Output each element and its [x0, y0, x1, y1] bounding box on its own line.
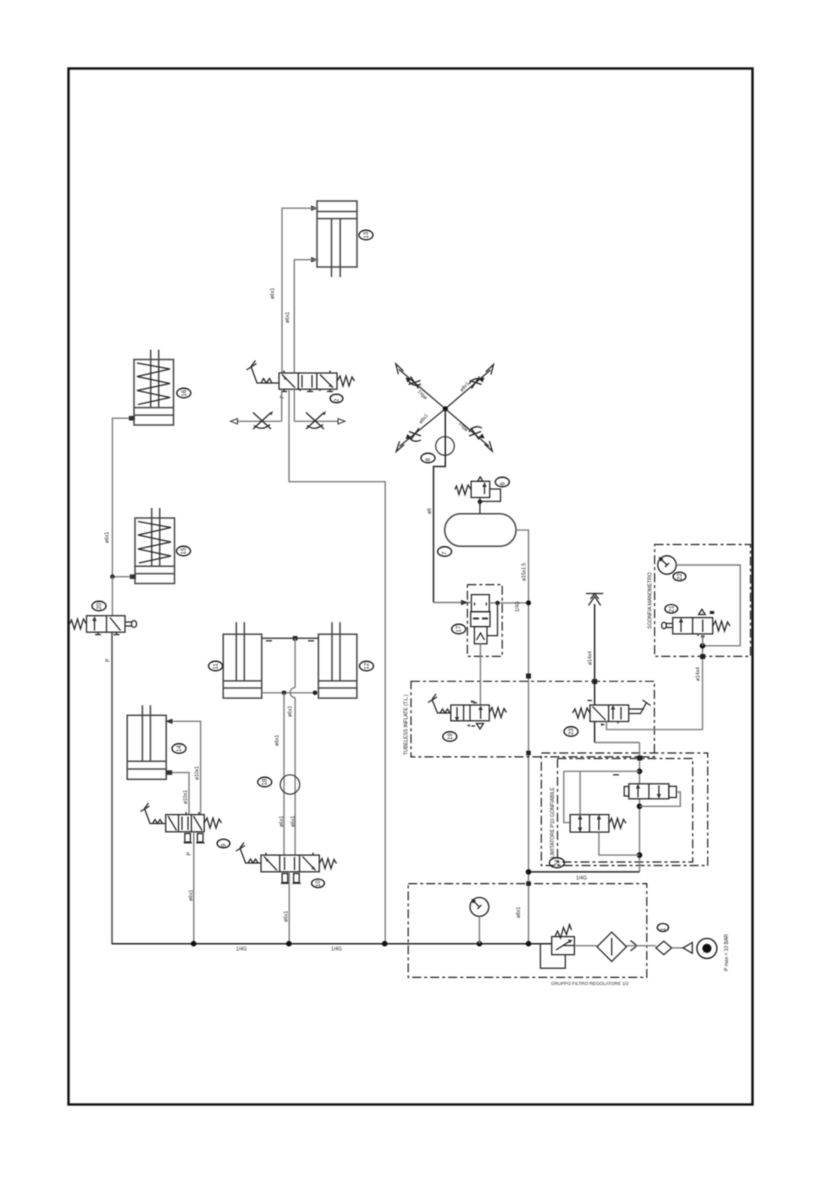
label manifold — [421, 453, 435, 463]
wire bottom manifold between C11 and C12 — [262, 691, 319, 696]
label cylinder C12 — [360, 661, 374, 671]
cylinder D (middle-left, double acting) — [127, 705, 166, 779]
pressure gauge FRL — [470, 898, 489, 944]
spring of valve V-D — [204, 818, 221, 828]
svg-text:ø10x1: ø10x1 — [195, 766, 201, 780]
wire centre riser with crossover hop — [290, 638, 295, 775]
wire left line of pair down — [283, 693, 285, 776]
port arrow top of cylinder B — [311, 206, 319, 211]
svg-text:12: 12 — [365, 662, 371, 669]
label valve V-D — [217, 839, 230, 848]
label tank — [438, 547, 452, 557]
air receiver tank — [445, 514, 516, 547]
tick crossing sgonfia box bottom — [700, 654, 705, 659]
svg-text:21: 21 — [669, 605, 675, 612]
wire cylinder D bottom port to valve — [172, 773, 189, 815]
junction dot supply riser — [526, 869, 532, 875]
svg-text:ø8: ø8 — [427, 508, 433, 514]
svg-text:10: 10 — [316, 880, 322, 887]
valve VA 2/2 pilot — [624, 784, 676, 799]
wire regulator outlet to main riser — [489, 602, 528, 604]
wire cylinder F port to left riser — [112, 418, 128, 578]
port arrow bottom of cylinder B — [311, 257, 319, 262]
wire manifold line into regulator — [434, 602, 472, 604]
filter FRL — [597, 932, 626, 961]
cylinder E (left second, spring return) — [130, 508, 175, 584]
svg-text:SGONFIA MANOMETRO: SGONFIA MANOMETRO — [648, 572, 654, 629]
air supply source — [697, 938, 717, 958]
wire valve V10 pressure to bus — [288, 872, 290, 944]
valve V21 3/2 button-spring — [673, 618, 713, 641]
label limiter id — [549, 858, 564, 868]
spring of valve V20 — [70, 619, 87, 629]
cylinder C12 (double acting) — [318, 622, 357, 698]
arrow into regulator — [461, 600, 469, 605]
exhaust mufflers of valve V-D — [184, 834, 205, 843]
pressure regulator FRL — [540, 925, 574, 969]
lever pedal of valve V2 — [247, 361, 280, 384]
lever of valve V23 — [629, 700, 651, 714]
cylinder C11 (double acting) — [223, 622, 262, 698]
valve V-D 5/2 lever-spring — [166, 812, 205, 832]
wire top manifold between C11 and C12 — [262, 636, 319, 641]
svg-text:14: 14 — [177, 745, 183, 752]
exhaust mufflers of valve V10 — [281, 874, 301, 884]
tick crossing at V23 line — [592, 679, 597, 684]
wire limiter main riser — [637, 743, 643, 872]
label cylinder D — [172, 744, 186, 754]
lever pedal of valve V10 — [236, 843, 261, 864]
supply bus line — [112, 941, 552, 947]
svg-text:1/4G: 1/4G — [236, 947, 247, 953]
label gauge sgonfia — [673, 572, 686, 581]
wire valve V21 bottom to junction — [702, 634, 704, 646]
label valve V23 — [564, 727, 578, 737]
wire cylinder B bottom port to valve — [294, 260, 317, 373]
label cylinder E — [177, 546, 191, 556]
wire cylinder E port to left riser — [112, 576, 129, 578]
label safety valve — [495, 477, 509, 487]
label cylinder B — [359, 230, 373, 240]
svg-text:1/4G: 1/4G — [515, 601, 521, 612]
blow gun arrow symbol — [586, 594, 603, 706]
label cylinder F — [177, 388, 191, 398]
label valve V20 — [92, 601, 106, 611]
label valve V10 — [312, 879, 325, 888]
svg-text:19: 19 — [448, 733, 454, 740]
svg-text:23: 23 — [569, 728, 575, 735]
label coupling — [657, 924, 668, 932]
tick crossing TL box — [526, 674, 531, 679]
pressure regulator dashed box — [467, 585, 502, 657]
svg-text:ø6x1: ø6x1 — [189, 890, 195, 901]
svg-text:ø6x1: ø6x1 — [270, 288, 276, 299]
wire valve V2 port A down — [281, 389, 283, 421]
border frame — [69, 69, 753, 1105]
label flow indicator — [258, 777, 272, 787]
valve V2 5/2 lever-spring — [279, 371, 337, 392]
flow indicator circle below manifold — [436, 437, 455, 456]
svg-text:GRUPPO FILTRO REGOLATORE 1/2: GRUPPO FILTRO REGOLATORE 1/2 — [551, 981, 629, 986]
svg-text:1/4G: 1/4G — [331, 947, 342, 953]
tick crossing limiter outer box top — [526, 751, 531, 756]
quick coupling diamond — [656, 941, 672, 955]
spring of valve V2 — [337, 376, 355, 386]
wire limiter top branch — [564, 771, 640, 822]
wire tank outlet to main riser — [516, 530, 529, 944]
spring of valve V19 — [489, 708, 506, 718]
svg-text:15: 15 — [182, 547, 188, 554]
FRL dash-dot box — [408, 884, 647, 978]
lever pedal of valve V19 — [428, 694, 451, 713]
flow indicator circle — [280, 775, 299, 855]
valve V23 3/2 spring-lever — [588, 701, 629, 726]
wire regulator down to TL valve — [479, 644, 481, 705]
spring of valve V23 — [573, 708, 591, 718]
port fitting bottom of cylinder D — [166, 770, 172, 775]
cylinder F (left top, spring return) — [129, 350, 174, 425]
flow control valve right of V2 — [294, 411, 345, 429]
exhaust triangle of valve V19 — [467, 724, 484, 730]
svg-text:TUBELESS INFLATE (T.L.): TUBELESS INFLATE (T.L.) — [404, 694, 410, 755]
svg-text:ø6x1: ø6x1 — [275, 735, 281, 746]
wire valve VA right loop to riser — [640, 792, 681, 806]
svg-text:ø6x1: ø6x1 — [284, 911, 290, 922]
svg-text:24: 24 — [555, 859, 561, 866]
wire gauge loop to valve V21 — [676, 565, 740, 646]
svg-text:22: 22 — [678, 573, 684, 580]
cylinder B (top, double-acting) — [317, 201, 357, 277]
svg-text:ø6x1: ø6x1 — [285, 312, 291, 323]
svg-text:ø14x4: ø14x4 — [696, 667, 702, 681]
tick crossing FRL box top — [526, 881, 531, 886]
svg-text:20: 20 — [97, 602, 103, 609]
label valve V19 — [443, 732, 457, 742]
tick crossing limiter box top — [637, 756, 642, 761]
wire cylinder D top port to valve — [173, 721, 201, 814]
spring of valve VB — [609, 818, 626, 828]
spring of valve V10 — [319, 859, 336, 869]
valve V19 3/2 lever-spring — [451, 700, 490, 721]
limiter outer dash-dot box — [541, 753, 707, 866]
port arrow top of cylinder D — [165, 719, 173, 724]
junction dot sgonfia — [700, 643, 706, 649]
safety relief valve — [455, 477, 501, 514]
sgonfia manometro dash-dot box — [655, 545, 751, 657]
svg-text:ø8x1: ø8x1 — [516, 907, 522, 918]
svg-text:17: 17 — [457, 625, 463, 632]
svg-text:ø14x4: ø14x4 — [588, 651, 594, 665]
valve V20 3/2 spring-button — [87, 616, 126, 635]
svg-text:ø15x1.5: ø15x1.5 — [522, 563, 528, 581]
wire valve V2 port B down — [293, 389, 295, 421]
svg-text:ø6x1: ø6x1 — [288, 706, 294, 717]
svg-text:18: 18 — [263, 778, 269, 785]
wire valve V-D pressure to bus — [193, 832, 195, 944]
label regulator — [452, 624, 466, 634]
wire filter to coupling — [626, 945, 656, 947]
check valve mark — [631, 941, 638, 951]
pressure regulator valve — [471, 595, 490, 644]
wire manifold down with jog — [434, 409, 446, 603]
wire valve V2 pressure line to bus — [289, 389, 385, 944]
wire coupling to source — [672, 947, 683, 949]
label cylinder C11 — [209, 661, 223, 671]
junction dot regulator outlet — [526, 600, 531, 605]
push button of valve V20 — [125, 621, 137, 628]
wire valve VB top port — [579, 771, 581, 814]
label valve V21 — [665, 605, 678, 614]
valve V10 5/2 lever-spring — [261, 853, 319, 872]
svg-text:1/4G: 1/4G — [576, 876, 587, 882]
wire cylinder B top port to valve — [282, 208, 317, 373]
svg-text:ø6x1: ø6x1 — [291, 816, 297, 827]
wire valve V23 right port to sgonfia loop — [607, 646, 703, 730]
distribution manifold X (4 outlets) — [396, 364, 494, 452]
wire valve V23 left port down to limiter — [594, 722, 596, 743]
svg-text:ø6x1: ø6x1 — [279, 816, 285, 827]
pilot line of regulator — [487, 601, 500, 636]
svg-text:ø6x1: ø6x1 — [105, 532, 111, 543]
svg-text:P max = 10 BAR: P max = 10 BAR — [724, 934, 730, 971]
svg-text:13: 13 — [364, 231, 370, 238]
push button of valve V21 — [662, 622, 673, 628]
inlet triangle — [683, 943, 692, 954]
exhaust triangle above valve V21 — [699, 609, 715, 614]
wire valve VB bottom loop — [599, 832, 640, 855]
svg-text:LIMITATORE P10 GONFIABILE: LIMITATORE P10 GONFIABILE — [550, 786, 556, 858]
wire valve V20 to bus — [111, 632, 113, 944]
svg-text:16: 16 — [182, 389, 188, 396]
label valve V2 — [330, 394, 343, 403]
lever pedal of valve V-D — [141, 803, 166, 824]
flow control valve left of V2 — [231, 411, 282, 429]
wire left riser to valve V20 — [111, 577, 113, 616]
limiter inner dash-dot box — [558, 759, 693, 863]
pressure gauge sgonfia — [658, 556, 676, 574]
spring of valve V21 — [713, 621, 730, 631]
svg-text:ø10x1: ø10x1 — [183, 790, 189, 804]
wire limiter to main supply riser — [529, 871, 640, 873]
valve VB 2/2 spring — [570, 815, 609, 833]
tubeless inflate dash-dot box — [411, 681, 654, 757]
junction dot left riser — [110, 574, 115, 579]
svg-text:11: 11 — [214, 663, 220, 670]
wire regulator to filter — [574, 945, 597, 947]
